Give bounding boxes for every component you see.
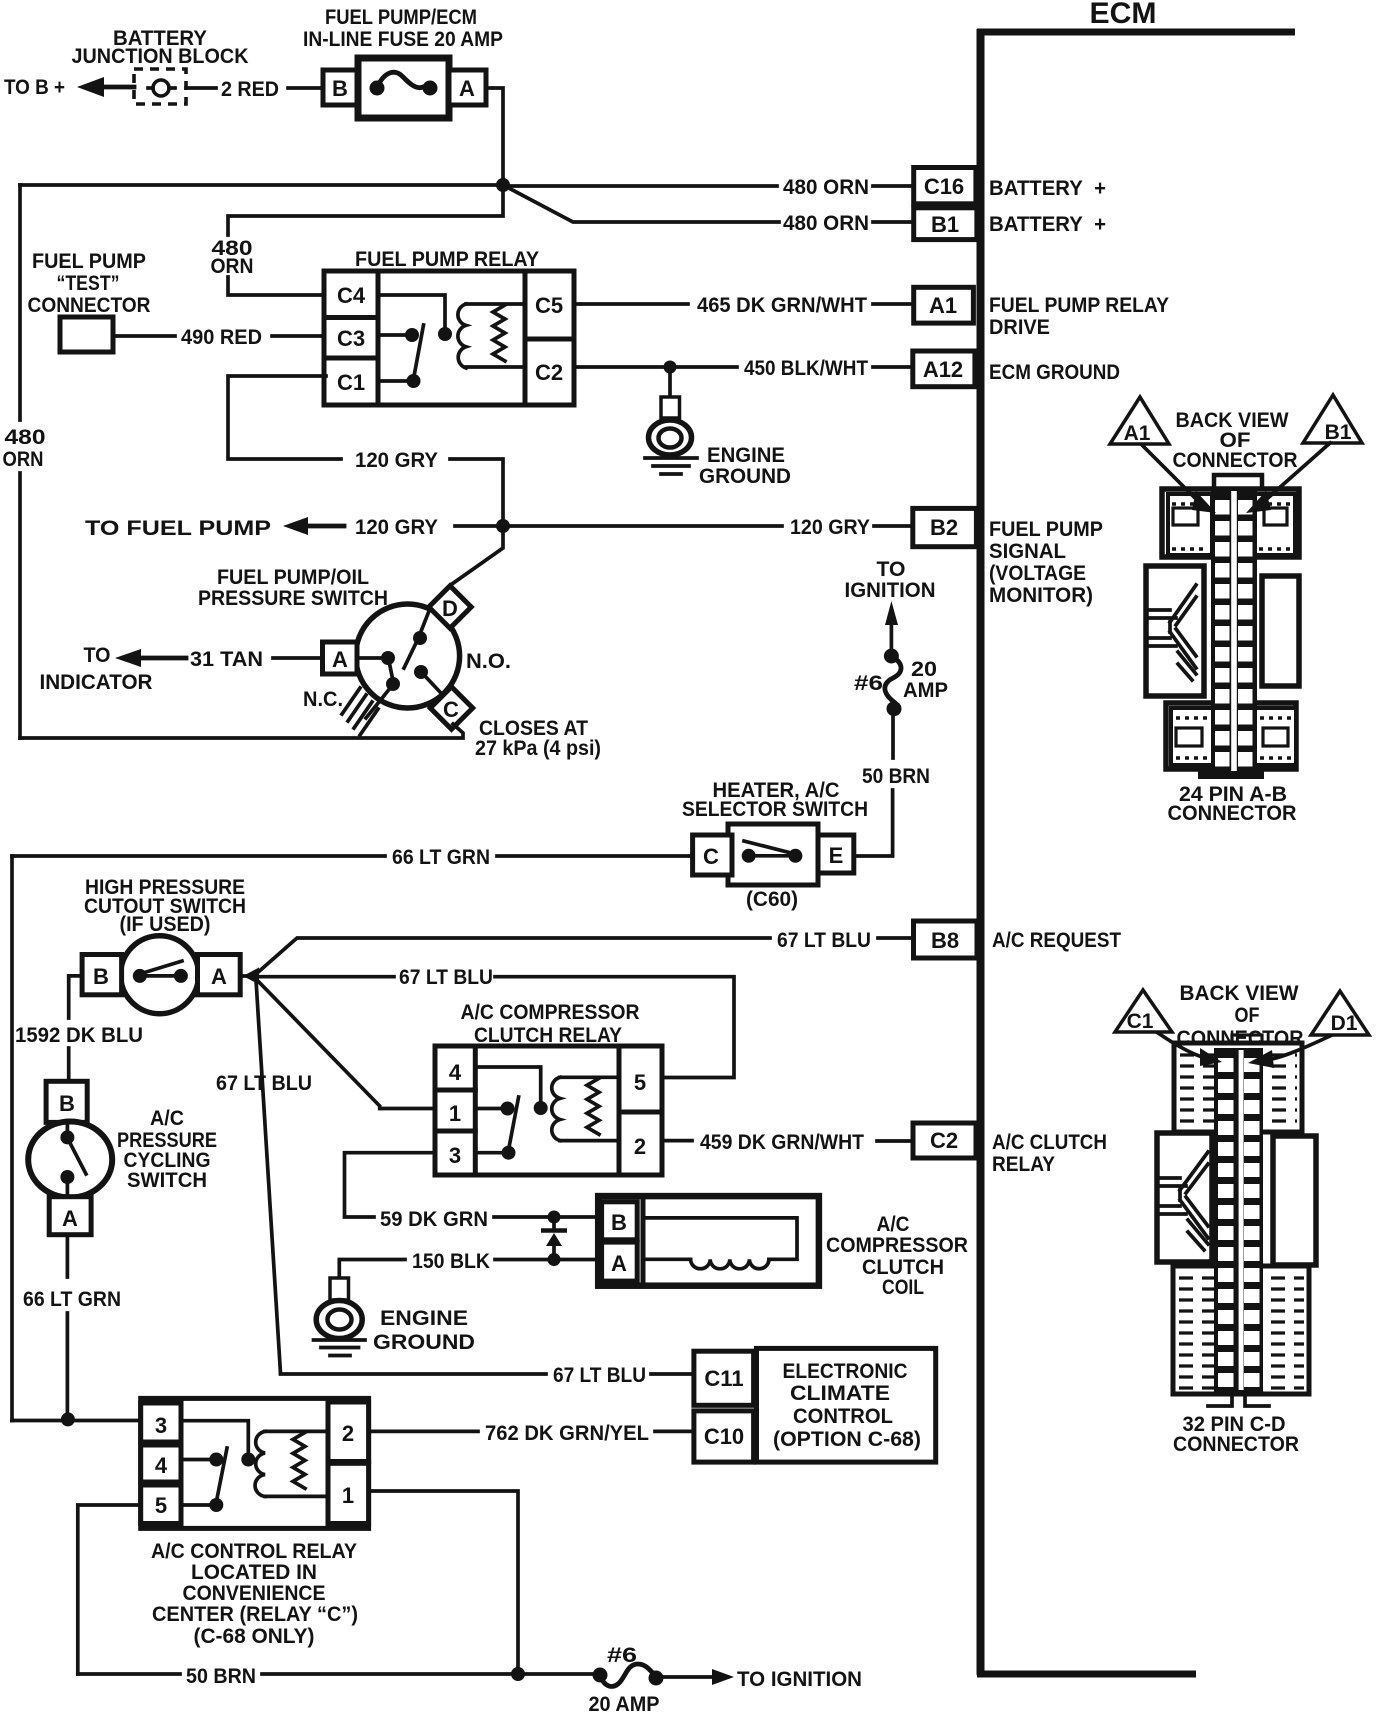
a/c pressure cycling switch body bbox=[28, 1122, 112, 1198]
label 20 AMP (fuse top) bbox=[903, 658, 948, 702]
label FUEL PUMP RELAY DRIVE bbox=[989, 294, 1169, 339]
callout triangle B1 bbox=[1303, 395, 1362, 444]
wire C2 to A12 (450 BLK/WHT) bbox=[574, 365, 913, 369]
svg-text:ENGINE: ENGINE bbox=[707, 444, 785, 467]
fuse #6 20 AMP (bottom) bbox=[593, 1664, 664, 1686]
wire A down 66 LT GRN bbox=[66, 1235, 70, 1414]
svg-text:TO: TO bbox=[877, 558, 906, 581]
svg-text:LOCATED IN: LOCATED IN bbox=[191, 1561, 317, 1584]
svg-text:B: B bbox=[59, 1091, 75, 1116]
svg-text:OF: OF bbox=[1235, 1004, 1260, 1027]
terminal C10 bbox=[694, 1411, 754, 1462]
svg-text:20 AMP: 20 AMP bbox=[589, 1693, 660, 1714]
svg-text:(C-68 ONLY): (C-68 ONLY) bbox=[194, 1625, 315, 1648]
svg-text:INDICATOR: INDICATOR bbox=[40, 671, 153, 694]
label FUEL PUMP SIGNAL (VOLTAGE MONITOR) bbox=[989, 518, 1103, 607]
label 24 PIN A-B CONNECTOR bbox=[1168, 783, 1297, 825]
svg-text:3: 3 bbox=[449, 1143, 461, 1168]
wire B to 1592 DK BLU bbox=[69, 976, 82, 1081]
wire bus corner to control relay 3 bbox=[12, 1419, 141, 1423]
svg-text:ORN: ORN bbox=[3, 448, 44, 471]
terminal B (cycling switch) bbox=[46, 1081, 87, 1122]
32 pin center pin grid bbox=[1214, 1048, 1263, 1392]
svg-text:59 DK GRN: 59 DK GRN bbox=[380, 1208, 488, 1231]
wire 67 LT BLU to C11 bbox=[281, 1372, 694, 1376]
svg-text:762 DK GRN/YEL: 762 DK GRN/YEL bbox=[485, 1422, 649, 1445]
svg-text:66 LT GRN: 66 LT GRN bbox=[23, 1288, 121, 1311]
svg-text:465 DK GRN/WHT: 465 DK GRN/WHT bbox=[697, 294, 867, 317]
case ground hatch (N.C.) bbox=[342, 688, 378, 735]
svg-text:120 GRY: 120 GRY bbox=[790, 516, 870, 539]
arrow to ignition (bottom) bbox=[663, 1669, 734, 1685]
callout triangle D1 bbox=[1311, 991, 1369, 1035]
node on 450 BLK/WHT bbox=[664, 361, 677, 374]
arrow to B+ bbox=[77, 77, 134, 97]
terminal B (cutout switch) bbox=[82, 955, 122, 995]
svg-text:C4: C4 bbox=[337, 283, 366, 308]
svg-text:4: 4 bbox=[155, 1453, 168, 1478]
label FUEL PUMP/OIL PRESSURE SWITCH bbox=[198, 566, 388, 610]
wire junction down to D terminal bbox=[452, 526, 503, 584]
svg-text:5: 5 bbox=[155, 1493, 167, 1518]
label FUEL PUMP "TEST" CONNECTOR bbox=[28, 250, 151, 317]
svg-text:50 BRN: 50 BRN bbox=[186, 1665, 256, 1688]
svg-text:PRESSURE SWITCH: PRESSURE SWITCH bbox=[198, 587, 388, 610]
terminal A (cycling switch) bbox=[49, 1197, 91, 1235]
node: 480 ORN junction bbox=[496, 178, 510, 192]
svg-text:C5: C5 bbox=[535, 293, 563, 318]
svg-text:IGNITION: IGNITION bbox=[845, 579, 936, 602]
label ENGINE GROUND (2) bbox=[373, 1307, 475, 1354]
svg-text:DRIVE: DRIVE bbox=[989, 316, 1050, 339]
label TO INDICATOR bbox=[40, 644, 153, 694]
svg-text:4: 4 bbox=[449, 1060, 462, 1085]
svg-text:RELAY: RELAY bbox=[992, 1153, 1055, 1176]
label 32 PIN C-D CONNECTOR bbox=[1173, 1413, 1299, 1456]
svg-text:B1: B1 bbox=[1325, 421, 1352, 444]
32 pin bottom feet bbox=[1208, 1393, 1269, 1406]
svg-text:CONNECTOR: CONNECTOR bbox=[1177, 1027, 1304, 1050]
wire 762 DK GRN/YEL to C10 bbox=[369, 1430, 694, 1434]
wire junction to left bus bbox=[20, 183, 503, 187]
wire A to indicator arrow bbox=[115, 649, 323, 667]
fuse #6 20 AMP (vertical) bbox=[884, 649, 902, 717]
24 pin chevron detail bbox=[1149, 585, 1196, 680]
svg-text:1: 1 bbox=[342, 1483, 354, 1508]
terminal C (selector switch) bbox=[693, 835, 732, 875]
svg-text:N.O.: N.O. bbox=[466, 650, 511, 673]
svg-text:A: A bbox=[611, 1251, 627, 1276]
wire fuse A down to junction bbox=[486, 88, 503, 182]
svg-text:TO FUEL PUMP: TO FUEL PUMP bbox=[85, 517, 271, 540]
wire C terminal to left bus (bottom) bbox=[20, 724, 463, 738]
svg-text:3: 3 bbox=[155, 1413, 167, 1438]
wire splice to B8 (67 LT BLU) bbox=[256, 938, 914, 974]
ECM pin B2 bbox=[913, 508, 977, 546]
ECM pin A1 bbox=[914, 287, 974, 323]
svg-text:C1: C1 bbox=[337, 370, 365, 395]
svg-text:TO IGNITION: TO IGNITION bbox=[737, 1668, 862, 1691]
svg-text:A/C CONTROL RELAY: A/C CONTROL RELAY bbox=[151, 1540, 357, 1563]
svg-text:C3: C3 bbox=[337, 326, 365, 351]
label BACK VIEW OF CONNECTOR (C-D) bbox=[1177, 982, 1304, 1050]
fuel pump test connector bbox=[60, 317, 113, 352]
node: 120 GRY junction bbox=[496, 519, 510, 533]
svg-text:C2: C2 bbox=[535, 360, 563, 385]
svg-text:A: A bbox=[332, 647, 348, 672]
wire 66 LT GRN bus to C terminal bbox=[12, 854, 693, 858]
svg-text:1592 DK BLU: 1592 DK BLU bbox=[15, 1024, 143, 1047]
svg-text:FUEL PUMP RELAY: FUEL PUMP RELAY bbox=[989, 294, 1169, 317]
svg-text:459 DK GRN/WHT: 459 DK GRN/WHT bbox=[700, 1131, 864, 1154]
label A/C COMPRESSOR CLUTCH COIL bbox=[826, 1213, 968, 1299]
svg-text:FUEL PUMP/OIL: FUEL PUMP/OIL bbox=[217, 566, 369, 589]
label ENGINE GROUND (1) bbox=[699, 444, 791, 488]
svg-text:A: A bbox=[62, 1206, 78, 1231]
clamping diode D1 bbox=[541, 1220, 567, 1256]
svg-text:A: A bbox=[211, 964, 227, 989]
svg-text:150 BLK: 150 BLK bbox=[412, 1250, 490, 1273]
svg-text:CONNECTOR: CONNECTOR bbox=[1168, 802, 1297, 825]
terminal E (selector switch) bbox=[818, 835, 854, 873]
fuse terminal A bbox=[449, 70, 486, 105]
svg-text:480 ORN: 480 ORN bbox=[783, 176, 869, 199]
wire 480 ORN left bus (vertical) bbox=[18, 185, 22, 738]
a/c compressor clutch relay K2 bbox=[435, 1046, 662, 1175]
arrow up to ignition bbox=[885, 601, 898, 649]
svg-text:CONNECTOR: CONNECTOR bbox=[1173, 1433, 1299, 1456]
svg-text:N.C.: N.C. bbox=[303, 688, 343, 711]
svg-text:(IF USED): (IF USED) bbox=[120, 913, 211, 936]
svg-text:(OPTION C-68): (OPTION C-68) bbox=[773, 1428, 921, 1451]
svg-text:ECM: ECM bbox=[1090, 0, 1157, 30]
node: 67 LT BLU splice bbox=[240, 968, 259, 985]
svg-text:D: D bbox=[442, 596, 458, 621]
svg-text:B: B bbox=[93, 964, 109, 989]
svg-text:31 TAN: 31 TAN bbox=[190, 648, 263, 671]
svg-text:27 kPa (4 psi): 27 kPa (4 psi) bbox=[475, 737, 601, 760]
svg-text:BATTERY +: BATTERY + bbox=[989, 213, 1106, 236]
svg-text:A/C: A/C bbox=[877, 1213, 910, 1236]
fuel pump relay K1 bbox=[324, 271, 574, 405]
32 pin chevron detail bbox=[1160, 1152, 1208, 1250]
svg-text:A1: A1 bbox=[929, 293, 957, 318]
label HEATER, A/C SELECTOR SWITCH bbox=[682, 779, 868, 821]
terminal A box bbox=[323, 642, 358, 674]
svg-text:120 GRY: 120 GRY bbox=[355, 516, 438, 539]
svg-text:B: B bbox=[611, 1210, 627, 1235]
svg-text:480 ORN: 480 ORN bbox=[783, 212, 869, 235]
svg-text:ELECTRONIC: ELECTRONIC bbox=[783, 1360, 908, 1383]
wire test connector 490 RED bbox=[113, 334, 326, 338]
label BATTERY JUNCTION BLOCK bbox=[72, 27, 249, 68]
svg-text:A: A bbox=[459, 76, 475, 101]
pressure switch contacts bbox=[357, 611, 440, 718]
svg-text:B1: B1 bbox=[931, 212, 959, 237]
svg-text:BACK VIEW: BACK VIEW bbox=[1180, 982, 1299, 1005]
high pressure cutout switch body bbox=[121, 936, 199, 1014]
ECM pin B1 bbox=[914, 208, 977, 240]
svg-text:CLIMATE: CLIMATE bbox=[790, 1382, 890, 1405]
svg-text:C: C bbox=[703, 844, 719, 869]
arrow B1 to pin bbox=[1246, 443, 1330, 513]
engine ground 1 bbox=[645, 367, 697, 474]
svg-text:#6: #6 bbox=[607, 1644, 637, 1667]
svg-text:CONNECTOR: CONNECTOR bbox=[1173, 449, 1298, 472]
32 pin connector body bbox=[1157, 1035, 1316, 1394]
terminal C diamond bbox=[430, 687, 472, 729]
svg-text:E: E bbox=[829, 843, 844, 868]
label 480 ORN (left bus) bbox=[3, 426, 46, 471]
svg-text:C11: C11 bbox=[704, 1366, 743, 1391]
svg-text:SIGNAL: SIGNAL bbox=[989, 540, 1066, 563]
svg-text:TO: TO bbox=[84, 644, 111, 667]
wire junction to C16 (480 ORN) bbox=[503, 184, 913, 188]
battery junction block symbol (dashed) bbox=[134, 69, 186, 104]
svg-text:2 RED: 2 RED bbox=[221, 78, 279, 101]
label A/C CONTROL RELAY LOCATED IN CONVENIENCE CENTER bbox=[151, 1540, 358, 1648]
svg-text:A/C REQUEST: A/C REQUEST bbox=[992, 929, 1121, 952]
heater a/c selector switch body bbox=[728, 824, 818, 885]
ECM pin B8 bbox=[914, 921, 978, 958]
svg-text:COMPRESSOR: COMPRESSOR bbox=[826, 1234, 968, 1257]
wire splice to clutch relay 5 (67 LT BLU) bbox=[257, 977, 734, 1078]
svg-text:CONVENIENCE: CONVENIENCE bbox=[183, 1582, 326, 1605]
callout triangle C1 bbox=[1115, 990, 1172, 1033]
svg-text:#6: #6 bbox=[854, 672, 883, 695]
a/c control relay K3 bbox=[141, 1398, 369, 1528]
arrow D1 to pin bbox=[1248, 1036, 1330, 1068]
wire relay 3 to coil B (59 DK GRN) bbox=[345, 1153, 602, 1217]
svg-text:C: C bbox=[443, 697, 459, 722]
wire relay 1 down to 50 BRN junction bbox=[369, 1491, 518, 1674]
svg-text:B2: B2 bbox=[930, 515, 958, 540]
node diode top bbox=[548, 1211, 561, 1224]
svg-text:5: 5 bbox=[634, 1070, 646, 1095]
fuse terminal B bbox=[323, 70, 357, 105]
svg-text:C1: C1 bbox=[1127, 1010, 1154, 1033]
svg-text:AMP: AMP bbox=[903, 679, 948, 702]
ECM module outline bbox=[977, 29, 1295, 1675]
svg-text:67 LT BLU: 67 LT BLU bbox=[777, 929, 871, 952]
wire relay 1 from splice diagonal bbox=[257, 980, 435, 1109]
svg-text:A1: A1 bbox=[1124, 422, 1151, 445]
wire junction down-left to relay C4 (480 ORN) bbox=[228, 185, 503, 295]
svg-text:50 BRN: 50 BRN bbox=[862, 765, 930, 788]
svg-text:120 GRY: 120 GRY bbox=[355, 449, 438, 472]
ECM pin C16 bbox=[914, 168, 976, 204]
24 pin connector body bbox=[1146, 475, 1299, 769]
svg-text:COIL: COIL bbox=[882, 1276, 924, 1299]
svg-text:450 BLK/WHT: 450 BLK/WHT bbox=[744, 357, 868, 380]
a/c compressor clutch coil bbox=[598, 1196, 819, 1286]
electronic climate control module bbox=[757, 1348, 936, 1462]
svg-text:BATTERY +: BATTERY + bbox=[989, 177, 1106, 200]
wire splice down to C11 (67 LT BLU) bbox=[256, 980, 281, 1373]
svg-text:C2: C2 bbox=[930, 1128, 958, 1153]
node 50 BRN junction bbox=[511, 1667, 525, 1681]
svg-text:ENGINE: ENGINE bbox=[380, 1307, 468, 1330]
wire 2 to C2 (459 DK GRN/WHT) bbox=[662, 1139, 913, 1143]
label A/C COMPRESSOR CLUTCH RELAY bbox=[461, 1001, 640, 1047]
terminal A (cutout switch) bbox=[198, 955, 241, 995]
node on relay feed wire bbox=[61, 1412, 75, 1426]
svg-text:2: 2 bbox=[634, 1134, 646, 1159]
svg-text:1: 1 bbox=[449, 1101, 461, 1126]
arrow C1 to pin bbox=[1158, 1033, 1222, 1066]
svg-text:D1: D1 bbox=[1331, 1012, 1358, 1035]
engine ground 2 bbox=[314, 1278, 366, 1356]
svg-text:20: 20 bbox=[911, 658, 937, 681]
svg-text:C10: C10 bbox=[704, 1424, 744, 1449]
label FUEL PUMP/ECM IN-LINE FUSE 20 AMP bbox=[303, 6, 503, 51]
label A/C CLUTCH RELAY bbox=[992, 1131, 1107, 1176]
svg-text:C16: C16 bbox=[924, 174, 964, 199]
wire 2 RED to fuse B bbox=[288, 86, 323, 90]
svg-text:67 LT BLU: 67 LT BLU bbox=[216, 1072, 312, 1095]
svg-text:B8: B8 bbox=[931, 928, 959, 953]
svg-text:A/C COMPRESSOR: A/C COMPRESSOR bbox=[461, 1001, 640, 1024]
terminal D diamond bbox=[429, 586, 471, 628]
fuel pump/oil pressure switch body bbox=[356, 604, 460, 708]
wire 66 LT GRN left bus vertical bbox=[10, 856, 14, 1421]
svg-text:“TEST”: “TEST” bbox=[57, 272, 120, 295]
svg-text:TO B +: TO B + bbox=[4, 76, 65, 99]
label HIGH PRESSURE CUTOUT SWITCH (IF USED) bbox=[84, 876, 246, 936]
wire C1 to 120 GRY row bbox=[228, 376, 503, 520]
svg-text:2: 2 bbox=[342, 1421, 354, 1446]
svg-text:GROUND: GROUND bbox=[699, 465, 791, 488]
svg-text:A12: A12 bbox=[923, 357, 963, 382]
node diode bottom bbox=[548, 1253, 561, 1266]
svg-text:FUEL PUMP: FUEL PUMP bbox=[989, 518, 1103, 541]
wire fuse to selector switch E (50 BRN) bbox=[854, 715, 893, 856]
label TO IGNITION (top) bbox=[845, 558, 936, 602]
svg-text:FUEL PUMP/ECM: FUEL PUMP/ECM bbox=[325, 6, 477, 29]
svg-text:GROUND: GROUND bbox=[373, 1331, 475, 1354]
svg-text:67 LT BLU: 67 LT BLU bbox=[553, 1364, 646, 1387]
in-line fuse 20 amp body bbox=[358, 58, 449, 118]
wire relay 5 down to 50 BRN bbox=[78, 1505, 141, 1674]
svg-text:ORN: ORN bbox=[211, 255, 254, 278]
wire C5 to A1 (465 DK GRN/WHT) bbox=[574, 302, 914, 306]
label A/C PRESSURE CYCLING SWITCH bbox=[117, 1107, 217, 1192]
svg-text:490 RED: 490 RED bbox=[181, 326, 262, 349]
svg-text:B: B bbox=[332, 76, 348, 101]
svg-text:CENTER (RELAY “C”): CENTER (RELAY “C”) bbox=[152, 1603, 358, 1626]
wire engine ground to coil A (150 BLK) bbox=[339, 1260, 601, 1279]
svg-text:CONNECTOR: CONNECTOR bbox=[28, 294, 151, 317]
label 480 ORN (relay feed) bbox=[211, 237, 254, 278]
svg-text:SWITCH: SWITCH bbox=[127, 1169, 207, 1192]
svg-text:(VOLTAGE: (VOLTAGE bbox=[989, 562, 1086, 585]
ECM pin A12 bbox=[913, 351, 975, 387]
arrow A1 to pin bbox=[1142, 445, 1216, 513]
label BACK VIEW OF CONNECTOR (A-B) bbox=[1173, 409, 1298, 472]
svg-text:(C60): (C60) bbox=[746, 888, 798, 911]
ECM pin C2 bbox=[913, 1123, 976, 1158]
svg-text:IN-LINE FUSE 20 AMP: IN-LINE FUSE 20 AMP bbox=[303, 28, 503, 51]
svg-text:JUNCTION BLOCK: JUNCTION BLOCK bbox=[72, 45, 249, 68]
svg-text:67 LT BLU: 67 LT BLU bbox=[399, 966, 493, 989]
svg-text:66 LT GRN: 66 LT GRN bbox=[392, 846, 490, 869]
24 pin center pin grid bbox=[1198, 489, 1264, 779]
svg-text:FUEL PUMP: FUEL PUMP bbox=[32, 250, 146, 273]
wire 50 BRN bottom run bbox=[78, 1672, 597, 1676]
terminal C11 bbox=[694, 1351, 754, 1405]
wire junction block to 2 RED bbox=[186, 86, 216, 90]
svg-text:ECM GROUND: ECM GROUND bbox=[989, 361, 1120, 384]
svg-text:SELECTOR SWITCH: SELECTOR SWITCH bbox=[682, 798, 868, 821]
svg-text:A/C CLUTCH: A/C CLUTCH bbox=[992, 1131, 1107, 1154]
svg-text:FUEL PUMP RELAY: FUEL PUMP RELAY bbox=[355, 248, 539, 271]
svg-text:MONITOR): MONITOR) bbox=[989, 584, 1093, 607]
svg-text:CONTROL: CONTROL bbox=[793, 1405, 893, 1428]
wire junction to fuel pump arrow bbox=[283, 517, 503, 535]
wire junction diagonal to B1 (480 ORN) bbox=[503, 185, 914, 222]
label CLOSES AT 27 kPa (4 psi) bbox=[475, 717, 601, 760]
wire junction to B2 (120 GRY) bbox=[503, 524, 913, 528]
svg-text:A/C: A/C bbox=[150, 1107, 184, 1130]
callout triangle A1 bbox=[1110, 397, 1169, 445]
svg-text:480: 480 bbox=[5, 426, 46, 449]
